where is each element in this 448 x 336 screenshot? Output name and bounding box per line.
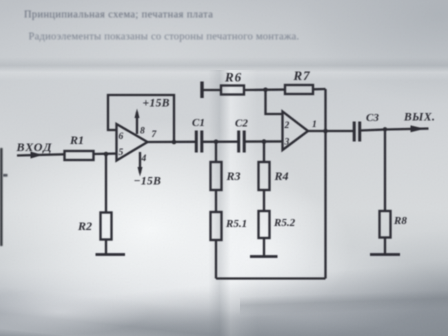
wire node D down to pin 2	[266, 90, 283, 114]
wire R2 to ground	[105, 240, 107, 255]
node D junction	[263, 88, 268, 93]
node E junction	[383, 127, 387, 131]
wire R6 to node D	[244, 88, 285, 91]
op-amp U1	[117, 124, 148, 161]
node A junction	[104, 152, 109, 157]
wire R1 to node A	[94, 152, 117, 155]
wire R3 to R5.1	[215, 190, 217, 212]
wire U1 output	[148, 141, 197, 144]
wire R4 to R5.2	[263, 190, 265, 211]
resistor R8	[380, 211, 391, 238]
resistor R1	[65, 151, 94, 160]
wire bar to R6	[202, 89, 221, 91]
power +15V arrow pin 8	[136, 112, 138, 134]
node B junction	[214, 140, 219, 145]
wire C1 to node B	[202, 141, 239, 143]
resistor R5.1	[211, 212, 222, 240]
wire node A down to R2	[105, 154, 107, 213]
resistor R4	[259, 162, 270, 190]
wire C2 to node C / pin 3	[244, 140, 282, 143]
right rail wire up to R7	[324, 89, 326, 279]
wire node B down to R3	[215, 142, 217, 162]
wire input to R1	[17, 154, 64, 155]
dark left edge strip	[0, 148, 3, 246]
output arrow	[411, 125, 426, 132]
capacitor C3	[353, 122, 356, 142]
wire U2 output to C3	[308, 130, 354, 132]
wire R5.2 to ground	[263, 238, 265, 256]
bottom rail wire	[216, 277, 326, 279]
power -15V arrow pin 4	[139, 152, 141, 173]
wire U1 feedback loop	[108, 95, 174, 142]
wire output with arrow	[385, 127, 429, 130]
wire node E down to R8	[384, 130, 386, 212]
op-amp U2	[283, 112, 309, 151]
ground under R5.2	[250, 255, 278, 258]
resistor R6	[221, 86, 244, 95]
wire node C down to R4	[263, 142, 265, 162]
small mark left edge	[3, 174, 8, 177]
wire R7 to right rail	[313, 88, 326, 91]
ground under R8	[370, 253, 400, 256]
wire C3 to node E	[360, 130, 385, 131]
junction output/right rail	[323, 129, 328, 134]
capacitor C2	[237, 131, 240, 153]
resistor R7	[285, 85, 313, 94]
junction feedback/output	[172, 140, 177, 145]
vertical crease x~232	[0, 70, 448, 336]
terminal bar left of R6	[200, 82, 203, 99]
resistor R3	[211, 162, 222, 190]
input arrow	[31, 152, 43, 159]
wire R5.1 to bottom rail	[215, 240, 217, 279]
ground under R2	[96, 253, 126, 256]
resistor R2	[101, 213, 112, 240]
wire R8 to ground	[384, 238, 386, 255]
node C junction	[262, 139, 267, 144]
resistor R5.2	[259, 211, 270, 238]
capacitor C1	[195, 131, 198, 153]
fold shadow right of centre	[240, 0, 448, 336]
